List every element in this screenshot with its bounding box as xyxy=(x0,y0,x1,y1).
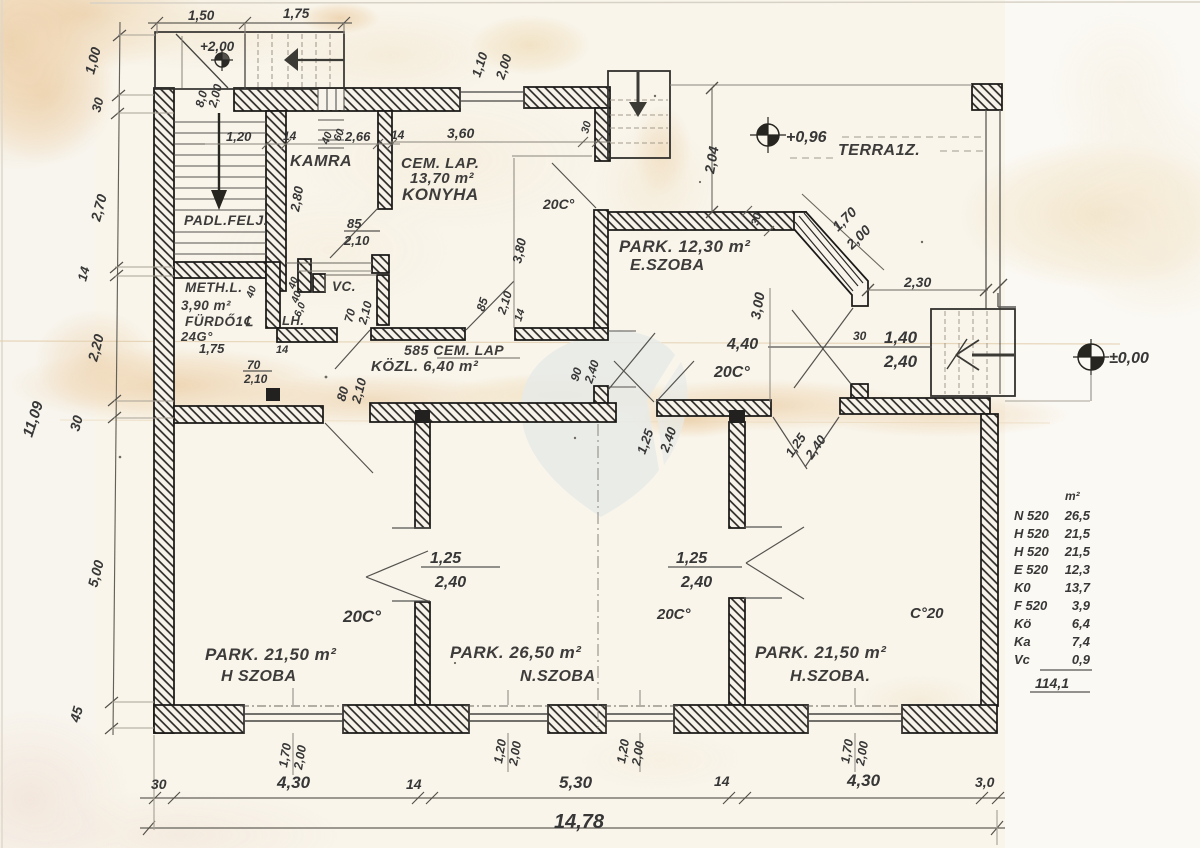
wall fürdő east xyxy=(266,262,280,328)
door jamb marks h-n xyxy=(392,527,430,529)
kamra south edge xyxy=(286,262,372,264)
svg-text:+2,00: +2,00 xyxy=(200,39,235,54)
dim line 1,20 padl xyxy=(205,143,400,145)
block n-h2 divider top xyxy=(729,410,745,423)
wall mid horizontal e.szoba south xyxy=(657,400,771,416)
window bottom 1 xyxy=(244,713,343,715)
svg-text:4,40: 4,40 xyxy=(726,336,758,353)
wall divider h-n upper xyxy=(415,422,430,528)
benchmark symbol +2,00 small xyxy=(211,49,233,71)
wall mid horizontal center xyxy=(370,403,616,422)
tick below 0,00 xyxy=(1090,371,1092,401)
svg-text:Kö: Kö xyxy=(1014,616,1031,631)
stair annex divider xyxy=(244,32,246,89)
door swing vc xyxy=(335,330,370,369)
vc room outline xyxy=(325,274,377,276)
svg-text:VC.: VC. xyxy=(332,279,356,294)
svg-text:20C°: 20C° xyxy=(713,364,750,381)
svg-text:H.SZOBA.: H.SZOBA. xyxy=(790,668,870,685)
svg-text:E.SZOBA: E.SZOBA xyxy=(630,257,705,274)
svg-text:1,25: 1,25 xyxy=(676,550,708,567)
svg-text:N.SZOBA: N.SZOBA xyxy=(520,668,596,685)
svg-text:0,9: 0,9 xyxy=(1072,652,1091,667)
wall mid horizontal west xyxy=(174,406,323,423)
drawing placeholder groups xyxy=(154,84,1002,733)
door swing n.szoba top V xyxy=(614,361,654,402)
dim line 2,04 xyxy=(711,88,713,212)
fraction line 1,25/2,40 left xyxy=(421,566,500,568)
svg-text:21,5: 21,5 xyxy=(1064,544,1091,559)
svg-text:K0: K0 xyxy=(1014,580,1031,595)
wall kamra se corner xyxy=(372,255,389,273)
svg-text:PARK. 26,50 m²: PARK. 26,50 m² xyxy=(450,643,582,662)
wall bottom south 5 xyxy=(902,705,997,733)
wall bottom south 2 xyxy=(343,705,469,733)
svg-text:H 520: H 520 xyxy=(1014,544,1049,559)
svg-text:14: 14 xyxy=(714,773,730,789)
svg-text:14: 14 xyxy=(391,128,405,142)
ticks 30 e.szoba wall xyxy=(742,206,752,216)
svg-text:3,9: 3,9 xyxy=(1072,598,1091,613)
wall konyha east upper xyxy=(595,108,610,161)
stair annex opening edge xyxy=(181,36,183,88)
padl.felj arrow down xyxy=(218,113,220,192)
svg-text:KAMRA: KAMRA xyxy=(290,153,352,170)
fraction line közl xyxy=(437,357,520,359)
svg-text:3,0: 3,0 xyxy=(975,774,995,790)
svg-text:1,20: 1,20 xyxy=(226,129,252,144)
wall vc east xyxy=(377,275,389,325)
svg-text:TERRA1Z.: TERRA1Z. xyxy=(838,142,920,159)
terrace dashed lines xyxy=(842,136,984,138)
benchmark symbol 0,96 xyxy=(750,117,786,153)
svg-text:PADL.FELJ.: PADL.FELJ. xyxy=(184,212,268,228)
terrace door swing X xyxy=(794,308,853,388)
wall kamra west xyxy=(266,111,286,291)
benchmark symbol 0,00 xyxy=(1073,339,1109,375)
svg-text:5,30: 5,30 xyxy=(559,773,593,792)
door swing konyha east xyxy=(552,163,596,208)
terrace east edge double line xyxy=(985,110,987,309)
svg-text:H 520: H 520 xyxy=(1014,526,1049,541)
svg-text:1,75: 1,75 xyxy=(283,6,310,21)
svg-text:Ka: Ka xyxy=(1014,634,1031,649)
svg-text:2,40: 2,40 xyxy=(883,352,918,371)
wall e.szoba west xyxy=(594,210,608,330)
konyha entry stairs xyxy=(608,71,670,158)
svg-text:PARK. 21,50 m²: PARK. 21,50 m² xyxy=(205,645,337,664)
fraction line 85/2,10 kamra door xyxy=(344,230,380,232)
svg-text:30: 30 xyxy=(853,329,867,343)
svg-text:20C°: 20C° xyxy=(342,607,381,626)
chimney block divider top xyxy=(415,410,430,423)
terrace north edge xyxy=(670,84,972,86)
svg-text:20C°: 20C° xyxy=(542,196,575,212)
dim line 1,40 fraction xyxy=(768,346,932,348)
door swing közl-hszoba xyxy=(325,423,373,473)
wall stub e.szoba west lower xyxy=(594,386,608,403)
svg-text:1,75: 1,75 xyxy=(199,341,225,356)
wall divider h-n lower xyxy=(415,602,430,705)
stair annex treads xyxy=(258,34,330,87)
dim line 3,00 e.szoba vertical xyxy=(769,288,771,402)
svg-text:2,66: 2,66 xyxy=(344,129,371,144)
window bottom 4 xyxy=(808,713,902,715)
svg-text:4,30: 4,30 xyxy=(276,773,311,792)
wall kamra east xyxy=(378,111,392,209)
svg-text:KONYHA: KONYHA xyxy=(402,185,479,204)
paper edge top xyxy=(90,2,1200,3)
svg-text:20C°: 20C° xyxy=(656,606,692,623)
terrace stairs arrow xyxy=(972,354,1014,357)
padl.felj treads xyxy=(174,122,266,254)
svg-text:14: 14 xyxy=(283,129,297,143)
door jamb marks e.szoba west xyxy=(608,330,636,332)
wall terrace pillar xyxy=(972,84,1002,110)
dim line 3,60 konyha horizontal xyxy=(390,141,611,143)
svg-text:85: 85 xyxy=(347,216,362,231)
svg-text:585 CEM. LAP: 585 CEM. LAP xyxy=(404,342,504,358)
svg-text:1,50: 1,50 xyxy=(188,8,215,23)
window bottom 3 xyxy=(606,713,674,715)
svg-text:4,30: 4,30 xyxy=(846,771,881,790)
terrace edge jog xyxy=(997,293,999,307)
wall közl north right xyxy=(515,328,608,340)
dim line 2,30 xyxy=(868,289,988,291)
wall fürdő south xyxy=(277,328,337,342)
right extension line xyxy=(1005,400,1090,402)
svg-text:PARK. 21,50 m²: PARK. 21,50 m² xyxy=(755,643,887,662)
door swing kamra xyxy=(330,208,378,258)
konyha entry arrow xyxy=(637,72,640,104)
wall east exterior xyxy=(981,414,998,706)
diagonal dim 1,70 xyxy=(802,194,884,270)
door jamb marks n-h2 xyxy=(744,526,782,528)
svg-text:METH.L.: METH.L. xyxy=(185,280,243,295)
svg-text:21,5: 21,5 xyxy=(1064,526,1091,541)
svg-text:70: 70 xyxy=(247,358,261,372)
window centerlines bottom xyxy=(293,688,855,775)
bottom chain 1 xyxy=(140,797,1005,799)
svg-text:7,4: 7,4 xyxy=(1072,634,1091,649)
wall top north (segment right of stair opening) xyxy=(234,88,460,111)
wall bottom south 4 xyxy=(674,705,808,733)
svg-text:E 520: E 520 xyxy=(1014,562,1049,577)
stair annex outline top-left xyxy=(155,32,344,89)
svg-text:Vc: Vc xyxy=(1014,652,1031,667)
area table xyxy=(1014,489,1091,691)
svg-text:FÜRDŐ1℄: FÜRDŐ1℄ xyxy=(185,314,254,329)
terrace stairs east xyxy=(931,309,1015,396)
crease line xyxy=(0,341,1120,344)
svg-text:14: 14 xyxy=(406,776,422,792)
left dim chain xyxy=(113,22,120,735)
svg-text:26,5: 26,5 xyxy=(1064,508,1091,523)
wall bottom south 3 xyxy=(548,705,606,733)
rotated dims xyxy=(20,45,874,771)
bottom chain 2 xyxy=(140,827,1005,829)
svg-text:±0,00: ±0,00 xyxy=(1109,350,1149,367)
stair annex arrow xyxy=(298,59,344,61)
door swing közl north xyxy=(466,281,514,330)
svg-text:13,7: 13,7 xyxy=(1065,580,1091,595)
wall közl north left xyxy=(371,328,465,340)
wall e.szoba north xyxy=(596,212,806,230)
window bottom 2 xyxy=(469,713,548,715)
wall mid horizontal east xyxy=(840,398,990,414)
svg-text:2,30: 2,30 xyxy=(903,274,931,290)
tiny dims fürdő cluster xyxy=(244,275,309,356)
svg-text:30: 30 xyxy=(151,776,167,792)
door swing h-n V xyxy=(366,551,428,577)
svg-text:1,40: 1,40 xyxy=(884,328,918,347)
top dim chain xyxy=(148,22,352,24)
door swing e.szoba west xyxy=(608,333,655,390)
svg-text:C°20: C°20 xyxy=(910,605,944,622)
fraction line 1,25/2,40 right xyxy=(668,566,742,568)
svg-text:2,40: 2,40 xyxy=(434,574,466,591)
wall divider n-h2 upper xyxy=(729,422,745,528)
wall left exterior xyxy=(154,88,174,733)
svg-text:2,10: 2,10 xyxy=(243,372,268,386)
svg-text:3,90 m²: 3,90 m² xyxy=(181,298,231,313)
wall divider n-h2 lower xyxy=(729,598,745,705)
wall stub below terrace door xyxy=(851,384,868,398)
stair passage through wall xyxy=(318,89,344,110)
wall vc west stub xyxy=(313,274,325,292)
svg-text:14,78: 14,78 xyxy=(554,811,605,833)
wall diagonal terrace corner xyxy=(794,212,868,306)
svg-text:PARK. 12,30 m²: PARK. 12,30 m² xyxy=(619,237,751,256)
svg-text:F 520: F 520 xyxy=(1014,598,1048,613)
svg-text:2,40: 2,40 xyxy=(680,574,712,591)
svg-text:6,4: 6,4 xyxy=(1072,616,1091,631)
svg-text:114,1: 114,1 xyxy=(1035,675,1069,691)
door swing e.szoba south V xyxy=(773,417,807,469)
svg-text:KÖZL. 6,40 m²: KÖZL. 6,40 m² xyxy=(371,358,479,375)
watermark shield xyxy=(521,330,687,517)
section dash line xyxy=(597,424,599,733)
svg-text:1,25: 1,25 xyxy=(430,550,462,567)
window top 1,10 xyxy=(460,91,524,93)
wall top north (segment right of window) xyxy=(524,87,610,108)
stair annex ramp diagonal xyxy=(176,34,228,88)
wall lh stub xyxy=(298,259,311,292)
svg-text:H SZOBA: H SZOBA xyxy=(221,668,297,685)
fraction line 70/2,10 fürdő xyxy=(243,370,272,372)
svg-text:2,10: 2,10 xyxy=(343,233,370,248)
svg-text:12,3: 12,3 xyxy=(1065,562,1091,577)
dim line 3,80 konyha vertical xyxy=(513,158,515,328)
svg-text:14: 14 xyxy=(276,344,288,356)
chimney block közl xyxy=(266,388,280,401)
svg-text:3,60: 3,60 xyxy=(447,125,474,141)
svg-text:m²: m² xyxy=(1065,489,1081,503)
wall bottom south 1 xyxy=(154,705,244,733)
svg-text:N 520: N 520 xyxy=(1014,508,1049,523)
wall fürdő north xyxy=(174,262,270,278)
door swing n-h2 V xyxy=(746,527,804,563)
svg-text:+0,96: +0,96 xyxy=(786,129,827,146)
